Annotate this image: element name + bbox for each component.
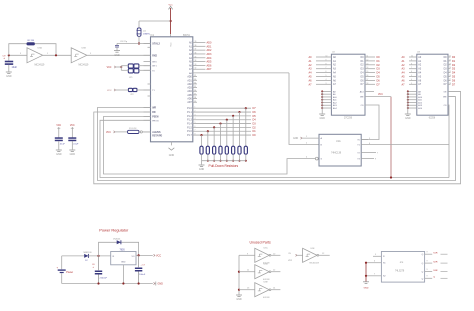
svg-text:P1.7: P1.7 (187, 135, 192, 137)
svg-text:AD0: AD0 (187, 76, 192, 79)
svg-text:VCC: VCC (106, 132, 111, 134)
svg-text:AD3: AD3 (187, 87, 192, 90)
svg-text:AD4: AD4 (187, 90, 192, 93)
svg-text:ALE/SS: ALE/SS (152, 131, 161, 134)
svg-text:32: 32 (195, 68, 197, 70)
svg-text:MBR130: MBR130 (84, 252, 93, 254)
svg-text:14: 14 (449, 67, 451, 69)
svg-text:S2R: S2R (433, 262, 438, 264)
svg-text:GND: GND (199, 168, 205, 171)
svg-text:7: 7 (195, 130, 196, 132)
svg-text:13: 13 (367, 63, 369, 65)
svg-text:GND: GND (121, 262, 126, 264)
svg-text:17: 17 (449, 79, 451, 81)
svg-text:14: 14 (367, 67, 369, 69)
svg-text:10: 10 (326, 56, 328, 58)
svg-text:RD: RD (152, 112, 156, 114)
svg-text:32: 32 (194, 75, 196, 77)
svg-text:Power: Power (66, 271, 73, 274)
svg-text:GND: GND (6, 75, 12, 78)
svg-text:AD6: AD6 (207, 64, 212, 67)
svg-text:AD2: AD2 (207, 49, 212, 52)
svg-text:AD1: AD1 (187, 79, 192, 82)
svg-text:C8 22p: C8 22p (120, 41, 128, 43)
svg-text:U5C: U5C (264, 247, 269, 249)
svg-text:34: 34 (195, 60, 197, 62)
svg-text:8: 8 (411, 63, 412, 65)
svg-text:Q: Q (433, 277, 435, 279)
svg-text:36: 36 (195, 52, 197, 54)
svg-text:PSEN: PSEN (152, 117, 159, 119)
svg-text:16: 16 (367, 75, 369, 77)
svg-text:38: 38 (195, 45, 197, 47)
svg-text:R1 8.2K: R1 8.2K (129, 128, 137, 130)
svg-text:11: 11 (449, 56, 451, 58)
svg-text:U5E: U5E (264, 282, 269, 284)
svg-text:6: 6 (195, 126, 196, 128)
svg-text:XTAL2: XTAL2 (152, 43, 160, 46)
svg-text:GND: GND (114, 54, 120, 57)
svg-text:RXD: RXD (152, 55, 157, 57)
svg-text:100uF: 100uF (139, 274, 146, 276)
svg-text:GND: GND (158, 283, 164, 286)
svg-text:10uF: 10uF (12, 66, 18, 69)
svg-text:.01uF: .01uF (59, 144, 65, 146)
svg-text:MC34119: MC34119 (79, 64, 90, 66)
svg-text:2200uF: 2200uF (100, 278, 108, 280)
svg-text:38: 38 (194, 97, 196, 99)
svg-text:S3R: S3R (433, 270, 438, 272)
svg-text:RST/VPD: RST/VPD (152, 136, 162, 138)
svg-text:P1.5: P1.5 (187, 127, 192, 129)
svg-text:15: 15 (449, 71, 451, 73)
svg-text:GND: GND (320, 117, 326, 120)
svg-text:WR: WR (152, 108, 156, 110)
svg-text:S1R: S1R (433, 253, 438, 255)
svg-text:4: 4 (326, 79, 327, 81)
svg-text:AD4: AD4 (207, 57, 212, 60)
svg-text:U5F: U5F (311, 248, 316, 250)
svg-text:9: 9 (326, 59, 327, 61)
svg-text:AD2: AD2 (187, 83, 192, 86)
svg-text:7805: 7805 (120, 249, 126, 251)
svg-text:P1.0: P1.0 (187, 108, 192, 110)
svg-text:Unused Parts: Unused Parts (250, 240, 271, 244)
svg-text:74LS279: 74LS279 (395, 271, 405, 273)
svg-text:U5B: U5B (82, 47, 87, 49)
svg-text:Pull-Down Resistors: Pull-Down Resistors (209, 164, 239, 168)
svg-text:10: 10 (411, 56, 413, 58)
svg-text:U1A: U1A (336, 140, 341, 143)
svg-text:VCC: VCC (70, 125, 75, 127)
svg-text:33: 33 (195, 64, 197, 66)
svg-text:VO: VO (131, 256, 134, 258)
svg-text:AD7: AD7 (207, 68, 212, 71)
svg-text:3: 3 (411, 83, 412, 85)
svg-text:GND: GND (405, 117, 411, 120)
svg-text:MC34119: MC34119 (35, 64, 46, 66)
svg-text:17: 17 (367, 79, 369, 81)
svg-text:GND: GND (56, 153, 62, 156)
svg-text:U5D: U5D (264, 264, 269, 266)
svg-text:35: 35 (194, 86, 196, 88)
svg-text:VCC: VCC (171, 42, 173, 47)
svg-text:P1.6: P1.6 (187, 131, 192, 133)
svg-text:VCC: VCC (168, 4, 173, 6)
svg-text:P1.2: P1.2 (187, 116, 192, 118)
svg-text:1N4004: 1N4004 (113, 239, 121, 241)
svg-text:37: 37 (195, 49, 197, 51)
svg-text:12: 12 (367, 59, 369, 61)
svg-text:12: 12 (449, 59, 451, 61)
svg-text:35: 35 (195, 56, 197, 58)
svg-text:39: 39 (195, 41, 197, 43)
svg-text:16: 16 (449, 75, 451, 77)
svg-text:P1.3: P1.3 (187, 120, 192, 122)
svg-text:AD0: AD0 (207, 42, 212, 45)
svg-text:AD5: AD5 (207, 61, 212, 64)
svg-text:5: 5 (326, 75, 327, 77)
svg-text:80C51: 80C51 (183, 35, 190, 37)
svg-text:18: 18 (367, 83, 369, 85)
svg-text:11: 11 (367, 56, 369, 58)
svg-text:GND: GND (236, 298, 242, 301)
svg-text:AD3: AD3 (207, 53, 212, 56)
svg-text:2: 2 (195, 111, 196, 113)
svg-text:37: 37 (194, 94, 196, 96)
svg-text:33: 33 (194, 79, 196, 81)
svg-text:34: 34 (194, 83, 196, 85)
svg-text:5: 5 (411, 75, 412, 77)
svg-text:36: 36 (194, 90, 196, 92)
svg-text:1: 1 (195, 107, 196, 109)
svg-text:P1.4: P1.4 (187, 124, 192, 126)
svg-text:MC34119: MC34119 (310, 263, 320, 265)
svg-text:7: 7 (411, 67, 412, 69)
svg-text:27C256: 27C256 (344, 118, 353, 120)
svg-text:8: 8 (195, 134, 196, 136)
svg-text:VCC: VCC (107, 67, 112, 69)
svg-text:PROG: PROG (152, 120, 159, 122)
svg-text:VCC: VCC (107, 90, 112, 92)
svg-text:.01uF: .01uF (73, 144, 79, 146)
svg-text:7: 7 (326, 67, 327, 69)
svg-text:4: 4 (195, 118, 196, 120)
svg-text:6: 6 (411, 71, 412, 73)
svg-text:Power Regulator: Power Regulator (99, 228, 129, 233)
svg-text:3: 3 (326, 83, 327, 85)
svg-text:13: 13 (449, 63, 451, 65)
svg-text:16MHz: 16MHz (143, 34, 150, 36)
svg-text:GND: GND (70, 153, 76, 156)
svg-text:15: 15 (367, 71, 369, 73)
svg-text:18: 18 (449, 83, 451, 85)
svg-text:5: 5 (195, 122, 196, 124)
svg-text:VCC: VCC (378, 94, 383, 96)
svg-text:8: 8 (326, 63, 327, 65)
svg-text:P1.1: P1.1 (187, 112, 192, 114)
svg-text:AD1: AD1 (207, 45, 212, 48)
svg-text:AD5: AD5 (187, 94, 192, 97)
svg-text:39: 39 (194, 101, 196, 103)
svg-text:4: 4 (411, 79, 412, 81)
svg-text:AD6: AD6 (187, 98, 192, 101)
svg-text:9: 9 (411, 59, 412, 61)
svg-text:GND: GND (364, 288, 369, 290)
svg-text:GND: GND (293, 138, 298, 140)
svg-text:4011N: 4011N (263, 297, 270, 299)
svg-text:GND: GND (169, 154, 175, 157)
svg-text:62256: 62256 (429, 118, 436, 120)
svg-text:6: 6 (326, 71, 327, 73)
svg-text:U5A: U5A (38, 46, 43, 49)
svg-text:VCC: VCC (56, 125, 61, 127)
svg-text:3: 3 (195, 114, 196, 116)
svg-text:74HC139: 74HC139 (331, 152, 342, 155)
svg-text:AD7: AD7 (187, 101, 192, 104)
svg-text:R2 1M: R2 1M (28, 40, 35, 42)
svg-text:VCC: VCC (156, 254, 161, 257)
